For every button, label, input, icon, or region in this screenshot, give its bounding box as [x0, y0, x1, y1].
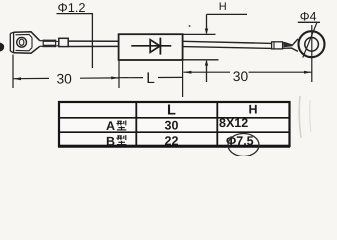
faint scan streaks right side: [299, 96, 301, 138]
table column divider 2: [216, 102, 218, 147]
dimension phi1.2 (wire diameter): [57, 0, 94, 68]
table cell background: [58, 101, 290, 147]
ring crimp dark pinch: [284, 43, 293, 48]
svg-text:H: H: [219, 1, 227, 13]
dimension phi4 (ring hole): [298, 10, 320, 58]
dimension L (body length): [119, 61, 183, 97]
glyph 型 (B row): [117, 135, 127, 145]
svg-text:Φ4: Φ4: [300, 10, 317, 24]
svg-text:L: L: [167, 102, 176, 118]
terminal body outline: [14, 32, 40, 53]
ring centerline extension: [311, 25, 313, 82]
terminal T1 (left spade quick-disconnect): [10, 32, 43, 53]
svg-text:L: L: [146, 70, 155, 87]
dimension line right 30: [184, 71, 312, 74]
page background: [0, 0, 337, 156]
scan blob at left edge: [0, 43, 4, 52]
svg-text:30: 30: [233, 69, 249, 84]
svg-text:A: A: [106, 119, 115, 133]
svg-text:30: 30: [165, 119, 179, 133]
svg-text:Φ7.5: Φ7.5: [226, 134, 254, 148]
svg-text:Φ1.2: Φ1.2: [58, 0, 86, 15]
dimension H: [205, 14, 247, 82]
scan speck: [189, 25, 191, 27]
table column divider 1: [135, 102, 137, 147]
glyph 型 (A row): [117, 120, 127, 129]
row label A-type: [106, 119, 126, 133]
terminal dimple circle: [17, 37, 27, 47]
svg-text:8X12: 8X12: [219, 116, 248, 130]
extension line body top (for H): [184, 33, 216, 35]
extension line body bottom (for H): [184, 59, 219, 61]
table bottom heavy rule: [58, 145, 290, 148]
svg-text:H: H: [249, 103, 258, 117]
ring terminal hole: [305, 38, 319, 52]
ring crimp sleeve: [272, 39, 298, 52]
diode symbol D1: [131, 38, 171, 55]
terminal dimple inner: [19, 39, 24, 45]
neck link: [40, 40, 43, 42]
table row divider 1: [59, 117, 290, 119]
wire (right lead, double line): [183, 41, 272, 48]
table row divider 2: [59, 131, 290, 133]
ring terminal outer circle: [299, 31, 325, 57]
diode body outline: [119, 34, 183, 60]
insulation crimp sleeve: [59, 38, 68, 46]
dimension line left 30: [13, 55, 119, 89]
tip rolled edge double line: [9, 34, 11, 52]
conductor crimp barrel: [43, 40, 59, 48]
terminal inner bevel: [16, 34, 33, 50]
annotation ellipse around phi7.5: [228, 134, 259, 157]
svg-text:22: 22: [165, 134, 179, 148]
svg-text:30: 30: [57, 72, 73, 87]
row label B-type: [106, 134, 126, 148]
svg-text:B: B: [106, 134, 115, 148]
table outer border: [59, 102, 290, 146]
wire (left lead, double line): [68, 41, 118, 46]
